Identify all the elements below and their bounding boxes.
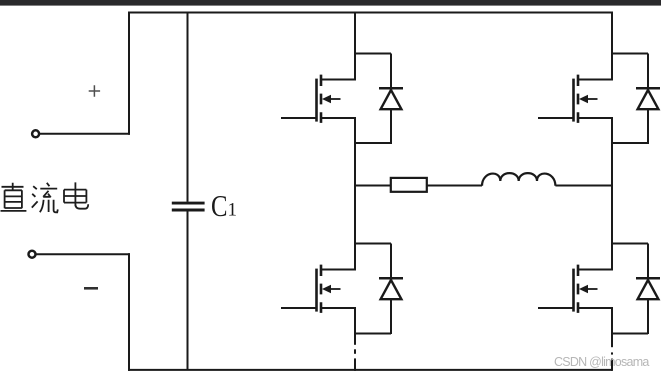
D2 cathode bar bbox=[636, 87, 660, 90]
capacitor C1 bottom lead bbox=[187, 211, 189, 370]
D4 bottom link bbox=[611, 333, 648, 335]
svg-text:1: 1 bbox=[228, 200, 238, 221]
Q2 gate bar bbox=[572, 79, 575, 122]
D1 bottom link bbox=[354, 142, 391, 144]
Q2 drain lead bbox=[578, 79, 613, 81]
Q3 drain lead bbox=[321, 269, 356, 271]
D1 anode wire bbox=[390, 109, 392, 144]
- input terminal bbox=[29, 251, 36, 258]
Q2 channel dashes bbox=[577, 75, 580, 123]
D3 triangle bbox=[381, 280, 402, 299]
wire bottom bus bbox=[128, 369, 612, 371]
D4 anode wire bbox=[647, 299, 649, 334]
D1 cathode bar bbox=[379, 87, 403, 90]
D4 top link bbox=[611, 243, 648, 245]
wire resistor to inductor bbox=[427, 185, 482, 187]
MOSFET Q3 (bottom-left) bbox=[281, 265, 356, 313]
D3 bottom link bbox=[354, 333, 391, 335]
Q3 source lead bbox=[321, 307, 356, 309]
wire + terminal to left leg bbox=[39, 133, 130, 135]
minus sign bbox=[84, 287, 98, 290]
wire left leg upper bbox=[128, 12, 130, 135]
wire right leg: Q4 source to bottom bus bbox=[611, 308, 613, 371]
wire top bus bbox=[128, 12, 612, 14]
plus sign bbox=[89, 85, 100, 96]
D4 triangle bbox=[638, 280, 659, 299]
D2 top link bbox=[611, 53, 648, 55]
Q1 drain lead bbox=[321, 79, 356, 81]
MOSFET Q1 (top-left) bbox=[281, 75, 356, 123]
wire right leg: bus to Q2 drain bbox=[611, 12, 613, 80]
wire right phase leg: Q2 source to Q4 drain (node B) bbox=[611, 118, 613, 269]
Q1 channel dashes bbox=[320, 75, 323, 123]
MOSFET Q4 (bottom-right) bbox=[538, 265, 613, 313]
MOSFET Q2 (top-right) bbox=[538, 75, 613, 123]
wire left leg: bus to Q1 drain bbox=[354, 12, 356, 80]
D4 cathode wire bbox=[647, 244, 649, 278]
Q2 body arrow tail bbox=[586, 98, 598, 100]
Q4 drain lead bbox=[578, 269, 613, 271]
capacitor C1 top lead bbox=[187, 13, 189, 202]
Q1 source lead bbox=[321, 117, 356, 119]
D2 triangle bbox=[638, 90, 659, 109]
D3 cathode wire bbox=[390, 244, 392, 278]
Q2 gate lead bbox=[538, 117, 574, 119]
diode D4 (antiparallel of Q4) bbox=[611, 244, 660, 335]
Q3 gate bar bbox=[315, 269, 318, 312]
label 直流电 (DC source) bbox=[1, 182, 89, 212]
load inductor L bbox=[482, 173, 555, 186]
D3 cathode bar bbox=[379, 277, 403, 280]
svg-text:C: C bbox=[211, 188, 228, 223]
Q2 body arrow head bbox=[579, 95, 588, 103]
D4 cathode bar bbox=[636, 277, 660, 280]
Q2 source lead bbox=[578, 117, 613, 119]
Q4 gate bar bbox=[572, 269, 575, 312]
D1 top link bbox=[354, 53, 391, 55]
wire left leg lower bbox=[128, 253, 130, 371]
Q4 body arrow head bbox=[579, 285, 588, 293]
D3 anode wire bbox=[390, 299, 392, 334]
wire left phase leg: Q1 source to Q3 drain (node A) bbox=[354, 118, 356, 269]
diode D1 (antiparallel of Q1) bbox=[354, 54, 403, 145]
Q1 gate lead bbox=[281, 117, 317, 119]
diode D3 (antiparallel of Q3) bbox=[354, 244, 403, 335]
watermark white gaps on left leg bbox=[350, 345, 360, 350]
Q3 body arrow head bbox=[322, 285, 331, 293]
top dark toolbar strip bbox=[0, 0, 661, 6]
Q3 channel dashes bbox=[320, 265, 323, 313]
Q4 source lead bbox=[578, 307, 613, 309]
wire - terminal to left leg bbox=[36, 253, 130, 255]
D2 bottom link bbox=[611, 142, 648, 144]
diode D2 (antiparallel of Q2) bbox=[611, 54, 660, 145]
load resistor R bbox=[391, 178, 427, 192]
+ input terminal bbox=[32, 130, 39, 137]
D1 triangle bbox=[381, 90, 402, 109]
D3 top link bbox=[354, 243, 391, 245]
wire inductor to node B bbox=[555, 185, 612, 187]
capacitor C1 plates bbox=[172, 203, 205, 210]
Q4 body arrow tail bbox=[586, 288, 598, 290]
D2 cathode wire bbox=[647, 54, 649, 88]
Q3 gate lead bbox=[281, 307, 317, 309]
Q4 channel dashes bbox=[577, 265, 580, 313]
Q1 gate bar bbox=[315, 79, 318, 122]
wire left leg: Q3 source to bottom bus bbox=[354, 308, 356, 371]
watermark white gaps on right leg bbox=[607, 347, 617, 352]
Q1 body arrow tail bbox=[329, 98, 341, 100]
Q3 body arrow tail bbox=[329, 288, 341, 290]
D2 anode wire bbox=[647, 109, 649, 144]
wire node A to load resistor bbox=[355, 185, 391, 187]
Q4 gate lead bbox=[538, 307, 574, 309]
D1 cathode wire bbox=[390, 54, 392, 88]
svg-text:CSDN @limosama: CSDN @limosama bbox=[554, 355, 649, 369]
Q1 body arrow head bbox=[322, 95, 331, 103]
